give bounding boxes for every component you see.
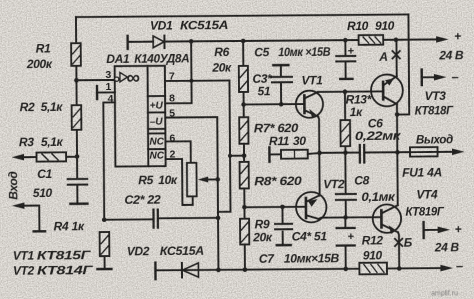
transistor VT3 <box>371 74 403 106</box>
label VD2 KS515A <box>127 244 204 259</box>
node VT3 emitter stub <box>395 112 400 117</box>
pin 2 wire to R5 bottom <box>165 148 192 205</box>
node C4 on VT2 base line <box>280 205 285 210</box>
label C4* 51 <box>292 229 328 243</box>
label R6 20k <box>211 45 232 75</box>
wire bottom rail right segment with arrow <box>387 258 463 274</box>
node riser on zener rail <box>189 39 194 44</box>
label DA1 K140UD8A <box>106 51 189 66</box>
fuse FU1 <box>410 147 438 156</box>
label R3 5,1k <box>19 135 64 149</box>
label C7 10mk x15V <box>259 251 340 266</box>
pin 5 wire to descender <box>165 107 218 270</box>
wire VT4 collector riser to output line <box>396 152 398 205</box>
label R1 200k <box>26 41 53 71</box>
label C3* 51 <box>252 72 273 99</box>
wire VT1 base line <box>244 103 303 105</box>
label R11 30 <box>269 134 306 148</box>
node C8/C7 on emitter line <box>343 215 348 220</box>
transistor VT4 <box>373 204 402 234</box>
input common terminal arrow with end bar <box>12 202 45 231</box>
resistor R11 with left bar <box>269 147 319 162</box>
node C7 bottom on rail <box>343 267 348 272</box>
label C2* 22 <box>124 193 161 207</box>
wire VT2 base line <box>244 206 303 208</box>
resistor R12 on rail <box>359 263 387 275</box>
label C6 0,22mk <box>355 116 402 143</box>
label VT4 KT819G <box>405 187 444 218</box>
label R12 910 <box>362 233 384 262</box>
node VT1/VT2/R11 junction <box>317 151 322 156</box>
label R8* 620 <box>254 174 302 188</box>
capacitor C8 <box>336 153 357 218</box>
zener diode VD2 <box>155 261 359 279</box>
label VT1 <box>301 73 323 87</box>
transistor VT1 <box>296 91 323 118</box>
capacitor C4* <box>275 207 292 245</box>
capacitor C7 electrolytic <box>337 217 355 269</box>
label R2 5,1k <box>20 100 64 114</box>
wire descender from pin7 line down <box>217 80 231 211</box>
resistor R8* <box>240 162 249 220</box>
resistor R6 <box>239 41 249 117</box>
label R5 10k <box>138 173 178 187</box>
label R4 1k <box>54 219 85 233</box>
pin 4 wire <box>103 93 116 220</box>
node VT1 base line on column <box>241 102 246 107</box>
zener diode VD1 <box>128 34 396 49</box>
resistor R2 <box>71 80 81 156</box>
resistor R3 horizontal <box>37 152 78 161</box>
node A rail junction <box>394 37 399 42</box>
node descender on bottom rail <box>216 268 221 273</box>
node pin7/pin8 riser junction <box>189 79 193 83</box>
minus terminal top <box>422 69 459 85</box>
pin 6 wire to R5 top <box>165 132 190 163</box>
node R13/C8 junction <box>343 150 348 155</box>
capacitor C2 <box>104 209 218 228</box>
capacitor C5 electrolytic <box>336 40 355 79</box>
capacitor C1 <box>68 156 88 203</box>
plus terminal bottom <box>424 222 462 238</box>
node C5 top on zener rail <box>343 38 348 43</box>
wire VT3 collector riser through node A <box>395 40 397 76</box>
node R7-R8 junction with stub <box>228 153 246 158</box>
label VT2 <box>323 177 345 191</box>
node B marker <box>395 236 413 250</box>
wire output arrow <box>452 148 465 155</box>
watermark <box>431 290 458 297</box>
input terminal arrow <box>12 154 37 161</box>
pin 8 wire <box>165 81 192 105</box>
resistor R10 <box>359 35 384 45</box>
wire +24V output arrow <box>396 36 449 43</box>
node output/VT3/VT4 junction <box>395 150 400 155</box>
label 24V bottom <box>434 240 460 254</box>
label Vhod (input) vertical <box>6 171 20 199</box>
label R10 910 <box>347 19 395 33</box>
label C8 0,1mk <box>354 173 396 204</box>
node wiper junction <box>215 177 220 182</box>
potentiometer R5 <box>187 163 218 197</box>
node R13 top <box>343 89 348 94</box>
node VT2 base line on column <box>242 205 247 210</box>
label VT3 KT818G <box>415 89 454 118</box>
resistor R9 <box>240 219 249 270</box>
node A marker <box>378 50 400 64</box>
node R9 on bottom rail <box>243 267 248 272</box>
capacitor C6 <box>360 145 365 163</box>
label C5 10mk x15V <box>254 45 331 60</box>
label FU1 4A <box>402 165 442 179</box>
capacitor C3* <box>272 65 292 104</box>
label Vyhod (output) <box>416 132 453 146</box>
wire VT1 collector to VT3 base <box>318 90 383 93</box>
node C2 right junction <box>216 216 221 221</box>
wire right riser from top rail to VT3 emitter stub <box>396 14 409 114</box>
resistor R13 <box>340 92 350 153</box>
wire pin3 of DA1 <box>76 79 114 81</box>
resistor R1 <box>71 17 81 80</box>
wire VT2 emitter line to VT4 base <box>318 217 381 219</box>
pin 1 wire with end bar <box>97 81 115 99</box>
label VD1 KS515A <box>150 18 228 33</box>
wire top rail +24V raw <box>76 14 408 17</box>
op-amp DA1 box <box>115 66 166 167</box>
wire VT2 collector riser <box>318 153 321 196</box>
transistor VT2 <box>296 192 327 223</box>
wire VT1 emitter down <box>318 117 319 153</box>
resistor R7* <box>239 117 248 162</box>
wire VT3 emitter down to stub and output <box>396 104 398 152</box>
node VT4 emitter on rail <box>397 266 402 271</box>
label R9 20k <box>252 217 273 244</box>
label R13* 1k <box>346 92 373 119</box>
note VT2 KT814G <box>13 263 93 278</box>
label C1 510 <box>33 167 53 200</box>
label + 24V top <box>438 29 464 62</box>
pin labels +U -U NC NC <box>149 101 165 162</box>
label R7* 620 <box>254 121 299 135</box>
note VT1 KT815G <box>13 248 91 263</box>
node C3 on base line <box>279 102 284 107</box>
wire VT4 emitter down to rail <box>398 232 399 268</box>
wire output line <box>320 152 452 153</box>
pin 3 bubble and label <box>105 69 118 81</box>
node junction R1-R2-pin3 <box>74 78 79 83</box>
op-amp DA1 amplifier symbol <box>120 68 140 89</box>
node zener rail x192 junction handled above; node R6 top <box>241 39 246 44</box>
node junction R3-R2-C1 <box>75 154 80 159</box>
pin 7 wire to supply rail <box>165 41 230 83</box>
resistor R4 <box>97 232 111 269</box>
node C2 junction on pin4 column <box>102 217 107 222</box>
